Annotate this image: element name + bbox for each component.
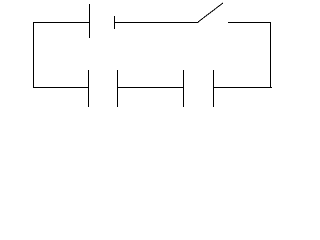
wire top-left horizontal xyxy=(33,22,89,24)
wire bottom-left horizontal xyxy=(33,87,89,89)
capacitor C2 left plate xyxy=(183,70,185,107)
wire C1 to C2 xyxy=(117,87,184,89)
capacitor C2 right plate xyxy=(213,70,215,107)
wire battery to switch xyxy=(114,22,199,24)
capacitor C1 left plate xyxy=(88,70,90,107)
battery B1 long plate xyxy=(89,4,91,38)
wire C2 to right corner xyxy=(213,87,272,89)
switch S1 lever xyxy=(198,3,223,22)
battery B1 short plate xyxy=(114,16,116,29)
wire right vertical xyxy=(270,22,272,88)
capacitor C1 right plate xyxy=(117,70,119,107)
wire switch to right corner xyxy=(228,22,271,24)
wire left vertical xyxy=(33,22,35,88)
